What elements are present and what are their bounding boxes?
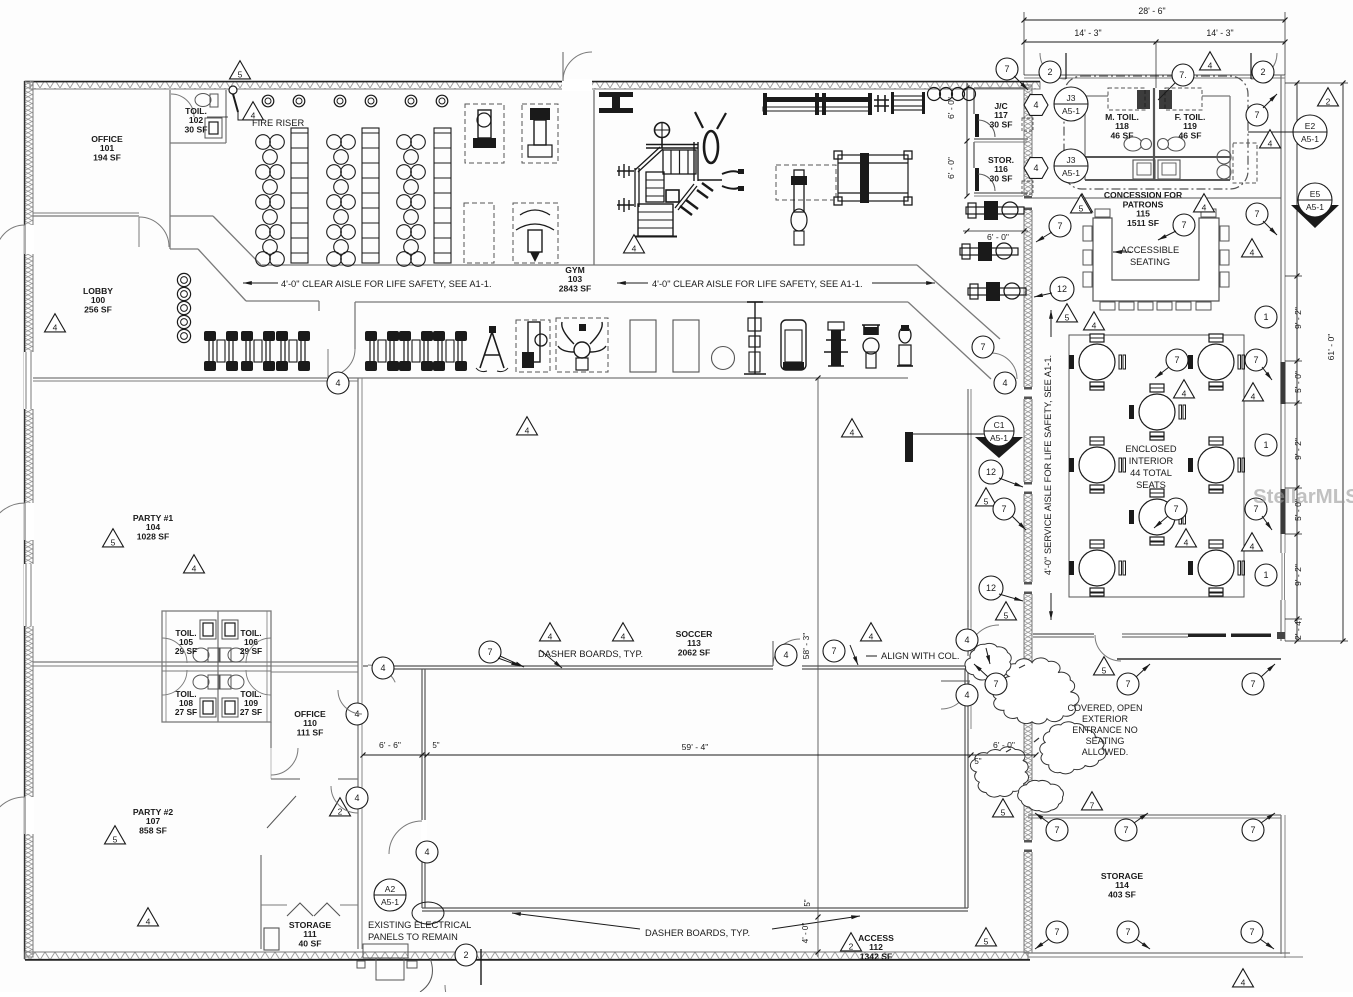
svg-text:61' - 0": 61' - 0" bbox=[1326, 334, 1336, 361]
callout (4) soccer w bbox=[372, 657, 394, 679]
svg-text:5: 5 bbox=[238, 69, 243, 79]
callout tri 4 acc bbox=[1242, 239, 1263, 257]
door: party2 exterior bbox=[0, 797, 25, 834]
wall stubs east soccer doors bbox=[967, 610, 969, 627]
svg-text:9' - 2": 9' - 2" bbox=[1293, 564, 1303, 586]
sinks M/F bbox=[1133, 160, 1155, 179]
wall: dining top bbox=[1032, 197, 1281, 199]
svg-text:7.: 7. bbox=[1179, 70, 1187, 80]
svg-text:4: 4 bbox=[354, 793, 359, 803]
callout tri5 serv top bbox=[1071, 195, 1092, 213]
callout (7.) conc mid bbox=[1172, 64, 1194, 86]
wall: party block east bbox=[357, 378, 359, 949]
wall: right exterior bbox=[1280, 75, 1282, 641]
svg-text:7: 7 bbox=[1054, 825, 1059, 835]
callout A2/A5-1 bbox=[374, 879, 406, 911]
callout E2/A5-1 bbox=[1293, 115, 1327, 149]
wall: alcove top bbox=[246, 300, 319, 302]
dim line J/C rooms bbox=[966, 83, 968, 196]
wall: gym row top bbox=[355, 301, 908, 303]
door: lobby exterior bbox=[0, 225, 25, 254]
callout (4) soccer sw door bbox=[416, 841, 438, 863]
svg-text:5: 5 bbox=[113, 834, 118, 844]
svg-text:4: 4 bbox=[53, 322, 58, 332]
svg-text:5: 5 bbox=[984, 496, 989, 506]
dim line 59-4 bbox=[363, 754, 1036, 756]
svg-text:4' - 0": 4' - 0" bbox=[801, 923, 810, 944]
walls M/F toilets bbox=[1084, 96, 1086, 180]
callout (7) topright bbox=[996, 58, 1018, 80]
equip: ball bbox=[712, 347, 735, 370]
tree cloud 3 bbox=[970, 747, 1028, 797]
tree cloud 1 bbox=[993, 658, 1079, 724]
callout tri 2 right bbox=[1318, 88, 1339, 106]
equip: bench machines alcove bbox=[204, 331, 216, 341]
callout (4) soccer ne bbox=[956, 629, 978, 651]
dasher boards top bbox=[363, 665, 368, 667]
accessible seating table bbox=[1093, 218, 1219, 301]
storage111 bbox=[260, 855, 262, 949]
callout party1 tri 5 bbox=[103, 529, 124, 547]
callout triangle 5 top bbox=[230, 61, 251, 79]
svg-text:5: 5 bbox=[1102, 665, 1107, 675]
room J/C 117 bbox=[974, 87, 1028, 89]
svg-text:4'-0" SERVICE AISLE FOR LIFE S: 4'-0" SERVICE AISLE FOR LIFE SAFETY, SEE… bbox=[1043, 355, 1053, 575]
wall: gym west section bbox=[593, 90, 595, 265]
svg-text:6' - 6": 6' - 6" bbox=[379, 740, 401, 750]
door: office101 bbox=[139, 217, 169, 247]
dim 28-6 bbox=[1024, 19, 1285, 21]
svg-text:6' - 0": 6' - 0" bbox=[993, 740, 1015, 750]
right wall dark window bands bbox=[1281, 362, 1286, 404]
svg-text:E5: E5 bbox=[1310, 189, 1321, 199]
svg-text:2: 2 bbox=[1326, 96, 1331, 106]
equip: corner circles bbox=[928, 88, 941, 101]
svg-text:5": 5" bbox=[803, 899, 812, 906]
equip: barbell racks bbox=[291, 128, 308, 263]
svg-text:A2: A2 bbox=[385, 884, 396, 894]
svg-text:4: 4 bbox=[1250, 541, 1255, 551]
svg-text:2: 2 bbox=[1047, 67, 1052, 77]
callout party1 tri 4 bbox=[184, 555, 205, 573]
equip: bike1 bbox=[863, 338, 879, 354]
callout (2) south door bbox=[455, 944, 477, 966]
party2 door leaf diagonal bbox=[267, 796, 296, 828]
svg-text:4: 4 bbox=[783, 650, 788, 660]
callout (7) covered pair bbox=[1117, 673, 1139, 695]
callout tri5 serv + (7) bbox=[976, 488, 997, 506]
svg-text:7: 7 bbox=[487, 647, 492, 657]
svg-text:7: 7 bbox=[1250, 679, 1255, 689]
callout (2) conc right bbox=[1252, 61, 1274, 83]
callout tri 5 dining bbox=[1057, 304, 1078, 322]
callout tri 2 access bbox=[841, 933, 862, 951]
svg-text:7: 7 bbox=[1253, 355, 1258, 365]
wall: office101 right bbox=[169, 90, 171, 216]
svg-text:4: 4 bbox=[850, 427, 855, 437]
callout tri 5 conc bbox=[1072, 194, 1093, 212]
svg-text:4: 4 bbox=[1251, 391, 1256, 401]
callout (4) office110 bbox=[346, 703, 368, 725]
dining table 6 bbox=[1139, 499, 1175, 535]
svg-text:1: 1 bbox=[1263, 440, 1268, 450]
dim 61-0 bbox=[1342, 83, 1344, 641]
tree cloud 5 bbox=[965, 643, 1011, 681]
wall: left exterior hatched bbox=[25, 81, 33, 957]
wall: gym bottom / party1 top bbox=[33, 377, 908, 379]
electrical panels bbox=[363, 944, 408, 958]
callout J3/A5-1 upper bbox=[1054, 87, 1088, 121]
equip: east wall machines bbox=[966, 207, 1024, 214]
grid line 58-3 bbox=[817, 378, 819, 957]
callout tri 5 sw covered bbox=[993, 799, 1014, 817]
callout (7) dasher bbox=[479, 641, 501, 663]
equip: treadmill bbox=[781, 320, 806, 370]
door: party1 exterior bbox=[0, 503, 25, 540]
svg-text:7: 7 bbox=[1174, 355, 1179, 365]
svg-text:7: 7 bbox=[980, 342, 985, 352]
svg-text:2' - 4": 2' - 4" bbox=[1293, 618, 1303, 640]
svg-text:5: 5 bbox=[1004, 610, 1009, 620]
svg-text:5' - 0": 5' - 0" bbox=[1293, 371, 1303, 393]
callout (7) covered w bbox=[985, 673, 1007, 695]
wall: toil102 bbox=[225, 90, 227, 143]
toilet fixtures 105/106 bbox=[200, 620, 216, 639]
svg-text:DASHER BOARDS, TYP.: DASHER BOARDS, TYP. bbox=[538, 649, 643, 659]
equip: lobby ball circles bbox=[177, 273, 190, 286]
svg-text:4: 4 bbox=[869, 631, 874, 641]
wall: office101 bottom bbox=[33, 215, 139, 217]
svg-text:EXISTING ELECTRICAL: EXISTING ELECTRICAL bbox=[368, 920, 471, 930]
equip: leg press right bbox=[838, 155, 908, 201]
svg-text:7: 7 bbox=[1004, 64, 1009, 74]
svg-text:4: 4 bbox=[1241, 977, 1246, 987]
callout (12) serv2 bbox=[979, 576, 1003, 600]
door: concession right (2) bbox=[1251, 53, 1277, 79]
callout party2 bbox=[105, 826, 126, 844]
svg-text:4: 4 bbox=[621, 631, 626, 641]
callout (4) soccer door bbox=[775, 644, 797, 666]
equip: antler machine bbox=[556, 318, 608, 372]
door: soccer top bbox=[773, 639, 800, 666]
svg-text:4: 4 bbox=[1002, 378, 1007, 388]
door arc office110 e wall bbox=[338, 690, 362, 714]
svg-text:J3: J3 bbox=[1067, 93, 1076, 103]
svg-text:28' - 6": 28' - 6" bbox=[1138, 6, 1165, 16]
svg-text:7: 7 bbox=[1181, 220, 1186, 230]
callout (1) x3 bbox=[1255, 306, 1277, 328]
door: gym top exterior bbox=[563, 52, 592, 81]
equip: bike2 bbox=[899, 327, 911, 343]
equip: machines NE of weights bbox=[465, 104, 504, 163]
tree trunk marks bbox=[1006, 665, 1039, 752]
svg-text:7: 7 bbox=[1249, 927, 1254, 937]
callout tri 5 covered top bbox=[1094, 657, 1115, 675]
svg-text:4'-0" CLEAR AISLE FOR LIFE SAF: 4'-0" CLEAR AISLE FOR LIFE SAFETY, SEE A… bbox=[652, 279, 863, 289]
svg-text:4: 4 bbox=[964, 690, 969, 700]
equip: barbell rack row top bbox=[763, 97, 871, 102]
svg-text:A5-1: A5-1 bbox=[1062, 168, 1080, 178]
wall: aisle diagonal right pair bbox=[917, 265, 1000, 339]
svg-text:StellarMLS: StellarMLS bbox=[1253, 485, 1353, 508]
door: concession left (2) bbox=[1040, 53, 1066, 79]
wall: alcove right + door bbox=[354, 302, 356, 349]
svg-text:DASHER BOARDS, TYP.: DASHER BOARDS, TYP. bbox=[645, 928, 750, 938]
callout (7)(4) aisle SE bbox=[972, 336, 994, 358]
enclosed dining rect bbox=[1069, 335, 1244, 597]
toilet stalls dashed bbox=[1108, 88, 1145, 110]
svg-text:9' - 2": 9' - 2" bbox=[1293, 307, 1303, 329]
callout (12) dining w bbox=[1050, 277, 1074, 301]
equip: smith machine bbox=[516, 320, 550, 372]
room STOR 116 bbox=[973, 142, 975, 168]
door arc party2 e bbox=[331, 786, 358, 813]
callout gym triangles bbox=[517, 417, 538, 435]
svg-text:4'-0" CLEAR AISLE FOR LIFE SAF: 4'-0" CLEAR AISLE FOR LIFE SAFETY, SEE A… bbox=[281, 279, 492, 289]
concession dashdot box bbox=[1064, 76, 1248, 189]
callout (4) alcove door bbox=[327, 372, 349, 394]
door J/C bbox=[975, 114, 979, 137]
svg-text:4: 4 bbox=[1268, 138, 1273, 148]
callout (7) dining w bbox=[1049, 215, 1071, 237]
dining table 5 bbox=[1198, 447, 1234, 483]
door: service aisle SE of gym bbox=[991, 353, 1017, 379]
svg-text:4: 4 bbox=[1182, 388, 1187, 398]
toilets M/F bbox=[1124, 137, 1142, 151]
svg-text:4: 4 bbox=[1250, 247, 1255, 257]
callout fire riser triangle 4 bbox=[243, 102, 264, 120]
callout (7) dining ne bbox=[1246, 203, 1268, 225]
svg-text:58' - 3": 58' - 3" bbox=[801, 633, 811, 660]
svg-text:A5-1: A5-1 bbox=[1306, 202, 1324, 212]
equip: bench dashed mid bbox=[776, 165, 836, 200]
svg-text:A5-1: A5-1 bbox=[381, 897, 399, 907]
dasher boards bottom bbox=[422, 907, 968, 909]
wall: bottom exterior hatched bbox=[25, 952, 1028, 960]
wall: party1/party2 divide bbox=[33, 661, 358, 663]
svg-text:7: 7 bbox=[1057, 221, 1062, 231]
svg-text:4: 4 bbox=[525, 425, 530, 435]
tree cloud 4 bbox=[1018, 780, 1064, 812]
callout C1/A5-1 bbox=[975, 437, 1023, 458]
dining table 8 bbox=[1198, 550, 1234, 586]
wall: dining bottom w/ windows bbox=[1033, 633, 1094, 635]
wall: top exterior hatched bbox=[30, 82, 1040, 89]
callout tri 5 access bbox=[976, 928, 997, 946]
window break right wall bbox=[1280, 553, 1287, 600]
toilet doors bbox=[162, 638, 187, 663]
svg-text:5: 5 bbox=[111, 537, 116, 547]
svg-text:6' - 0": 6' - 0" bbox=[987, 232, 1009, 242]
svg-text:5": 5" bbox=[974, 757, 981, 766]
svg-text:1: 1 bbox=[1263, 312, 1268, 322]
svg-text:4: 4 bbox=[146, 916, 151, 926]
toilet fixture toil102 bbox=[195, 94, 211, 107]
svg-text:1: 1 bbox=[1263, 570, 1268, 580]
svg-text:6' - 0": 6' - 0" bbox=[946, 157, 956, 179]
dasher boards left bbox=[421, 669, 423, 908]
svg-text:PANELS TO REMAIN: PANELS TO REMAIN bbox=[368, 932, 458, 942]
svg-text:A5-1: A5-1 bbox=[990, 433, 1008, 443]
svg-text:4: 4 bbox=[192, 563, 197, 573]
svg-text:7: 7 bbox=[1090, 800, 1095, 810]
svg-text:7: 7 bbox=[831, 646, 836, 656]
callout (7) align bbox=[823, 640, 845, 662]
svg-text:5: 5 bbox=[1001, 807, 1006, 817]
dining table 7 bbox=[1079, 550, 1115, 586]
svg-text:9' - 2": 9' - 2" bbox=[1293, 438, 1303, 460]
wall: storage114 top bbox=[1028, 814, 1281, 816]
tree cloud 2 bbox=[1040, 722, 1106, 774]
callout (2) conc left bbox=[1039, 61, 1061, 83]
door: toil102 bbox=[171, 94, 194, 117]
svg-text:4: 4 bbox=[335, 378, 340, 388]
wall: east soccer upper bbox=[967, 389, 969, 656]
wall: service corridor hatched bbox=[1024, 85, 1032, 953]
callout (7) e wall bbox=[1246, 104, 1268, 126]
svg-text:7: 7 bbox=[1173, 504, 1178, 514]
svg-text:4: 4 bbox=[548, 631, 553, 641]
svg-text:5": 5" bbox=[432, 741, 439, 750]
svg-text:J3: J3 bbox=[1067, 155, 1076, 165]
equip: stepper bbox=[831, 330, 841, 366]
toilet block outer bbox=[162, 611, 271, 722]
svg-text:4: 4 bbox=[1033, 163, 1038, 173]
callout tri 4 dining bbox=[1084, 312, 1105, 330]
svg-text:4: 4 bbox=[1184, 537, 1189, 547]
svg-text:14' - 3": 14' - 3" bbox=[1206, 28, 1233, 38]
svg-text:2: 2 bbox=[463, 950, 468, 960]
svg-text:7: 7 bbox=[1054, 927, 1059, 937]
door: covered nw bbox=[968, 625, 999, 656]
callout lobby tri 4 bbox=[45, 314, 66, 332]
svg-text:4: 4 bbox=[251, 110, 256, 120]
svg-text:7: 7 bbox=[1123, 825, 1128, 835]
wall: concession top bbox=[1024, 74, 1285, 76]
drinking fountains bbox=[1217, 150, 1231, 164]
toilet fixtures 108/109 bbox=[193, 675, 209, 689]
svg-text:E2: E2 bbox=[1305, 121, 1316, 131]
callout tri 4 conc2 bbox=[1194, 194, 1215, 212]
svg-text:C1: C1 bbox=[994, 420, 1005, 430]
svg-text:4: 4 bbox=[964, 635, 969, 645]
svg-text:2: 2 bbox=[1260, 67, 1265, 77]
callout tri 4 tables bbox=[1174, 380, 1195, 398]
dim 14-3 x2 bbox=[1024, 41, 1285, 43]
svg-text:4: 4 bbox=[632, 243, 637, 253]
callout (12) serv1 bbox=[979, 460, 1003, 484]
svg-text:2: 2 bbox=[849, 941, 854, 951]
wall: lobby right + aisle diagonals bbox=[169, 216, 171, 249]
wall: weights area bottom bbox=[262, 264, 917, 266]
dining table 1 bbox=[1079, 344, 1115, 380]
door (2) south bbox=[480, 949, 482, 985]
callout tri 7 covered bbox=[1082, 792, 1103, 810]
svg-text:7: 7 bbox=[1125, 679, 1130, 689]
dining table 4 bbox=[1079, 447, 1115, 483]
callout tri 5 ne bbox=[996, 602, 1017, 620]
svg-text:A5-1: A5-1 bbox=[1301, 134, 1319, 144]
callout J3/A5-1 lower bbox=[1054, 149, 1088, 183]
svg-text:7: 7 bbox=[1254, 110, 1259, 120]
svg-text:4: 4 bbox=[380, 663, 385, 673]
svg-text:59' - 4": 59' - 4" bbox=[682, 742, 709, 752]
callout (7) storage rows bbox=[1046, 819, 1068, 841]
svg-text:12: 12 bbox=[1057, 284, 1067, 294]
wall: bottom exterior under storage 114 bbox=[1028, 952, 1290, 954]
dim chain right bbox=[1296, 83, 1298, 641]
callout (4) soccer e door bbox=[956, 684, 978, 706]
svg-text:7: 7 bbox=[1250, 825, 1255, 835]
svg-text:A5-1: A5-1 bbox=[1062, 106, 1080, 116]
equip: bench machines gym bbox=[365, 331, 377, 341]
equip: I-beam column bbox=[599, 92, 633, 113]
svg-text:4: 4 bbox=[1208, 60, 1213, 70]
svg-text:12: 12 bbox=[986, 467, 996, 477]
svg-text:4: 4 bbox=[1092, 320, 1097, 330]
dasher boards right bbox=[964, 669, 966, 908]
svg-text:14' - 3": 14' - 3" bbox=[1074, 28, 1101, 38]
callout (7) acc seating bbox=[1173, 214, 1195, 236]
equip: A-frame bbox=[480, 332, 504, 368]
callout tri 4 bottom bbox=[1233, 969, 1254, 987]
svg-text:5: 5 bbox=[984, 936, 989, 946]
svg-text:5: 5 bbox=[1079, 203, 1084, 213]
svg-text:7: 7 bbox=[1125, 927, 1130, 937]
callout E5/A5-1 bbox=[1291, 205, 1339, 228]
dining table 2 bbox=[1198, 344, 1234, 380]
callout soccer triangles top bbox=[540, 623, 561, 641]
svg-text:ALIGN WITH COL.: ALIGN WITH COL. bbox=[881, 651, 960, 661]
svg-text:7: 7 bbox=[1001, 504, 1006, 514]
svg-text:5: 5 bbox=[1065, 312, 1070, 322]
equip: stair tower bbox=[655, 123, 670, 138]
wall: covered w + door bbox=[941, 680, 970, 682]
svg-text:12: 12 bbox=[986, 583, 996, 593]
svg-text:4: 4 bbox=[424, 847, 429, 857]
callout tri 4 e2 bbox=[1260, 130, 1281, 148]
svg-text:4: 4 bbox=[1202, 202, 1207, 212]
callout tri 4 align bbox=[861, 623, 882, 641]
callout tri 4 conc bbox=[1200, 52, 1221, 70]
wall: storage114 right bbox=[1280, 815, 1282, 954]
equip: two rect mats bbox=[630, 320, 656, 372]
equip: cable column bbox=[754, 302, 756, 374]
callout (7) tables bbox=[1166, 349, 1188, 371]
fire riser bbox=[229, 86, 237, 94]
wall: covered area top edge bbox=[1117, 658, 1281, 660]
equip: plate circles row bbox=[262, 95, 274, 107]
dining table 3 bbox=[1139, 394, 1175, 430]
equip: dumbbell circle columns bbox=[256, 135, 271, 150]
svg-text:7: 7 bbox=[993, 679, 998, 689]
office110 walls bbox=[270, 722, 272, 748]
svg-text:4: 4 bbox=[1033, 100, 1038, 110]
svg-text:7: 7 bbox=[1254, 209, 1259, 219]
